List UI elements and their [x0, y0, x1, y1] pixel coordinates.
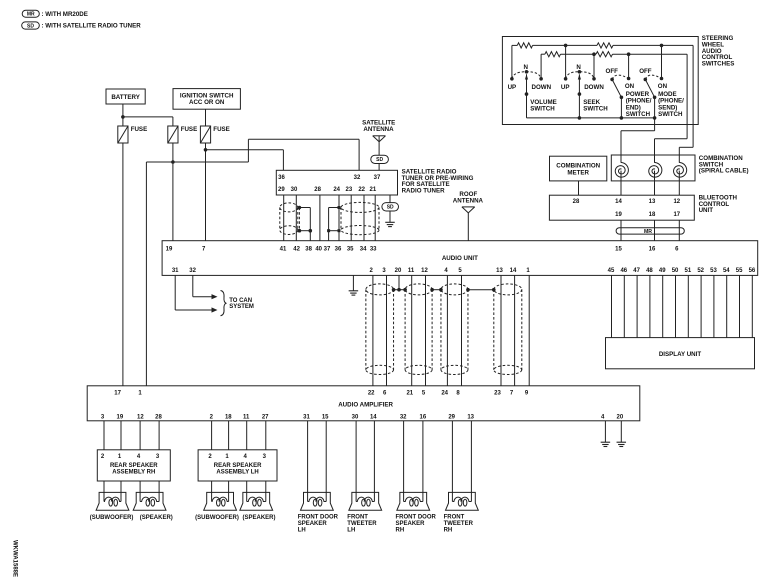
- svg-text:49: 49: [659, 268, 666, 274]
- svg-text:SPEAKER: SPEAKER: [396, 521, 426, 527]
- svg-text:47: 47: [633, 268, 640, 274]
- wire roof antenna to audio unit: [467, 213, 469, 241]
- svg-text:FUSE: FUSE: [131, 126, 148, 133]
- svg-text:1: 1: [118, 454, 122, 460]
- svg-text:(SPEAKER): (SPEAKER): [242, 515, 275, 521]
- resistor R2: [545, 52, 561, 57]
- legend SD symbol: [22, 22, 40, 29]
- satellite antenna symbol: [373, 135, 386, 137]
- svg-text:METER: METER: [567, 169, 589, 176]
- connector SD oval antenna: [371, 155, 389, 163]
- svg-text:N: N: [576, 64, 581, 71]
- wire amp pin 20 to ground: [620, 421, 622, 442]
- svg-text:REAR SPEAKER: REAR SPEAKER: [214, 463, 262, 469]
- audio amplifier box: [87, 386, 640, 421]
- svg-text:50: 50: [672, 268, 679, 274]
- shield cylinder 2: [405, 284, 432, 295]
- svg-text:7: 7: [510, 391, 514, 397]
- svg-text:38: 38: [305, 246, 312, 252]
- svg-text:4: 4: [137, 454, 141, 460]
- svg-text:14: 14: [370, 414, 377, 420]
- svg-text:UP: UP: [508, 84, 517, 91]
- svg-text:19: 19: [615, 212, 622, 218]
- front door speaker RH: [397, 492, 430, 510]
- svg-text:32: 32: [354, 175, 361, 181]
- svg-text:14: 14: [510, 268, 517, 274]
- svg-text:4: 4: [601, 414, 605, 420]
- svg-text:DOWN: DOWN: [532, 84, 552, 91]
- svg-text:30: 30: [352, 414, 359, 420]
- wire ACC branch riser: [247, 139, 249, 162]
- svg-text:FRONT DOOR: FRONT DOOR: [396, 514, 437, 520]
- svg-text:4: 4: [444, 268, 448, 274]
- svg-text:WKWA1588E: WKWA1588E: [12, 540, 18, 577]
- battery box: [106, 89, 145, 104]
- fuse F1: [118, 126, 128, 143]
- svg-text:34: 34: [360, 246, 367, 252]
- svg-text:20: 20: [395, 268, 402, 274]
- audio unit box: [162, 241, 758, 276]
- wire line2 to volume DOWN: [540, 54, 542, 79]
- svg-text:48: 48: [646, 268, 653, 274]
- wire battery to fuse F1: [122, 104, 124, 126]
- svg-text:1: 1: [526, 268, 530, 274]
- svg-text:40: 40: [315, 246, 322, 252]
- svg-text:54: 54: [723, 268, 730, 274]
- power phone end switch: [610, 78, 614, 82]
- wire fuse F1 to amplifier pin 17: [122, 143, 124, 386]
- svg-text:17: 17: [673, 212, 680, 218]
- wires rear RH subwoofer: [103, 481, 105, 502]
- wire amp pin 19 to rear RH pin 1: [120, 421, 122, 450]
- volume switch: [510, 77, 514, 81]
- svg-text:13: 13: [649, 199, 656, 205]
- svg-text:19: 19: [117, 414, 124, 420]
- wire audio unit case ground: [352, 275, 354, 290]
- ground audio unit: [349, 290, 359, 292]
- svg-text:22: 22: [368, 391, 375, 397]
- resistor R1: [517, 43, 532, 48]
- svg-text:13: 13: [467, 414, 474, 420]
- wire fuse F2 to audio unit pin 19: [172, 143, 174, 241]
- wire bluetooth pin 18 to audio unit pin 16: [654, 220, 656, 241]
- svg-text:: WITH MR20DE: : WITH MR20DE: [42, 11, 88, 18]
- ground amp pin 4: [601, 441, 611, 443]
- svg-text:TWEETER: TWEETER: [347, 521, 377, 527]
- svg-text:SPEAKER: SPEAKER: [298, 521, 328, 527]
- svg-text:3: 3: [382, 268, 386, 274]
- wire line2 to seek DOWN: [593, 54, 595, 79]
- svg-text:: WITH SATELLITE RADIO TUNER: : WITH SATELLITE RADIO TUNER: [42, 23, 142, 30]
- svg-text:17: 17: [114, 391, 121, 397]
- wire line1 to seek UP: [565, 45, 567, 78]
- junction battery feed: [121, 115, 125, 119]
- spiral cable coil 2: [649, 162, 662, 177]
- wire switch common rail: [527, 117, 655, 119]
- wire ACC branch to satellite tuner pin 32: [248, 138, 359, 140]
- svg-text:FUSE: FUSE: [181, 126, 198, 133]
- svg-text:5: 5: [422, 391, 426, 397]
- svg-text:1: 1: [225, 454, 229, 460]
- svg-text:12: 12: [673, 199, 680, 205]
- svg-text:22: 22: [358, 187, 365, 193]
- svg-text:OFF: OFF: [606, 68, 619, 75]
- svg-text:28: 28: [314, 187, 321, 193]
- rear speaker RH speaker: [133, 492, 166, 510]
- wire audio pin 1 to amp pin 9: [528, 275, 530, 385]
- shield B drain to audio pin 37: [329, 207, 339, 209]
- rear speaker LH speaker: [240, 492, 273, 510]
- svg-text:14: 14: [615, 199, 622, 205]
- wire line1 output to spiral cable 3: [692, 45, 694, 147]
- svg-text:TWEETER: TWEETER: [444, 521, 474, 527]
- svg-text:2: 2: [370, 268, 374, 274]
- rear subwoofer RH speaker: [96, 492, 129, 510]
- svg-text:52: 52: [697, 268, 704, 274]
- wire amp pin 27 to rear LH pin 3: [265, 421, 267, 450]
- svg-text:TO CAN: TO CAN: [229, 298, 252, 304]
- svg-text:46: 46: [620, 268, 627, 274]
- svg-text:ASSEMBLY LH: ASSEMBLY LH: [216, 469, 258, 475]
- svg-text:SD: SD: [387, 205, 394, 211]
- wires rear RH speaker: [139, 481, 141, 502]
- steering wheel audio control switches box: [502, 37, 698, 125]
- svg-text:5: 5: [458, 268, 462, 274]
- svg-text:SD: SD: [27, 23, 34, 29]
- svg-text:OFF: OFF: [639, 68, 652, 75]
- svg-text:6: 6: [383, 391, 387, 397]
- wires front door speaker LH: [307, 421, 309, 502]
- svg-text:4: 4: [244, 454, 248, 460]
- satellite radio tuner box: [276, 170, 397, 195]
- wire bus line 1: [512, 44, 517, 46]
- svg-text:LH: LH: [298, 527, 306, 533]
- svg-text:37: 37: [374, 175, 381, 181]
- wire line2 to power switch ON: [628, 54, 630, 78]
- wire SD oval to ground: [389, 211, 391, 222]
- svg-text:(SUBWOOFER): (SUBWOOFER): [195, 515, 239, 521]
- wire amp pin 3 to rear RH pin 2: [103, 421, 105, 450]
- wire line1 to volume UP: [511, 45, 513, 78]
- svg-text:36: 36: [335, 246, 342, 252]
- svg-text:REAR SPEAKER: REAR SPEAKER: [110, 463, 158, 469]
- svg-text:53: 53: [710, 268, 717, 274]
- shield cylinder 1: [366, 284, 394, 295]
- wire amp pin 18 to rear LH pin 1: [228, 421, 230, 450]
- svg-text:SWITCHES: SWITCHES: [702, 60, 735, 67]
- wire tuner pin 22 to audio pin 34: [363, 195, 365, 241]
- ground satellite SD: [385, 221, 395, 223]
- wire audio pin 2 to amp pin 22: [372, 275, 374, 385]
- svg-text:MR: MR: [27, 12, 35, 18]
- shield cylinder 4: [494, 284, 522, 295]
- svg-text:SWITCH: SWITCH: [658, 111, 683, 118]
- shield cylinder 3: [441, 284, 468, 295]
- wire fuse F3 branch to satellite tuner pin 36: [206, 149, 284, 151]
- junction fuse F3 branch: [204, 148, 208, 152]
- svg-text:FRONT: FRONT: [347, 514, 368, 520]
- shield A drain to audio pin 38: [298, 208, 300, 231]
- svg-text:55: 55: [736, 268, 743, 274]
- svg-text:45: 45: [608, 268, 615, 274]
- svg-text:FRONT: FRONT: [444, 514, 465, 520]
- wire ignition to fuse F3: [205, 109, 207, 126]
- spiral cable coil 3: [674, 162, 687, 177]
- wire audio pin 13 to amp pin 23: [500, 275, 502, 385]
- ignition switch box: [173, 89, 240, 110]
- svg-text:N: N: [523, 64, 528, 71]
- wire SD to satellite tuner pin 37: [378, 164, 380, 171]
- wire bus line 2: [541, 53, 545, 55]
- wire amp pin 11 to rear LH pin 4: [246, 421, 248, 450]
- front door speaker LH: [301, 492, 334, 510]
- wire audio pin 31 to CAN: [174, 275, 176, 310]
- svg-text:21: 21: [370, 187, 377, 193]
- shield cylinder A: [280, 203, 298, 212]
- shield cylinder B: [341, 202, 379, 212]
- roof antenna symbol: [462, 206, 475, 208]
- svg-text:1: 1: [138, 391, 142, 397]
- svg-text:ANTENNA: ANTENNA: [363, 126, 394, 133]
- wire audio pin 4 to amp pin 24: [446, 275, 448, 385]
- svg-text:(SPEAKER): (SPEAKER): [140, 515, 173, 521]
- svg-text:27: 27: [262, 414, 269, 420]
- wire bluetooth pin 17 to audio unit pin 6: [678, 220, 680, 241]
- svg-text:21: 21: [406, 391, 413, 397]
- svg-text:42: 42: [293, 246, 300, 252]
- svg-text:28: 28: [155, 414, 162, 420]
- svg-text:24: 24: [333, 187, 340, 193]
- svg-text:6: 6: [675, 246, 679, 252]
- svg-text:11: 11: [408, 268, 415, 274]
- wire audio pin 3 to amp pin 6: [386, 275, 388, 385]
- wires front tweeter RH: [451, 421, 453, 502]
- svg-text:12: 12: [421, 268, 428, 274]
- svg-text:UNIT: UNIT: [699, 207, 714, 214]
- fuse F2: [168, 126, 178, 143]
- svg-text:16: 16: [420, 414, 427, 420]
- svg-text:2: 2: [210, 414, 214, 420]
- rear speaker assembly RH box: [97, 450, 170, 481]
- svg-text:41: 41: [280, 246, 287, 252]
- svg-text:MR: MR: [644, 229, 652, 235]
- svg-text:31: 31: [172, 268, 179, 274]
- connector SD oval ground: [382, 203, 399, 211]
- svg-text:35: 35: [347, 246, 354, 252]
- svg-text:ANTENNA: ANTENNA: [453, 198, 484, 205]
- wire amp pin 28 to rear RH pin 3: [158, 421, 160, 450]
- front tweeter LH: [349, 492, 382, 510]
- svg-text:11: 11: [243, 414, 250, 420]
- svg-text:9: 9: [525, 391, 529, 397]
- svg-text:18: 18: [225, 414, 232, 420]
- svg-text:ACC OR ON: ACC OR ON: [189, 99, 225, 106]
- svg-text:29: 29: [278, 187, 285, 193]
- shield jumper wires: [394, 289, 406, 291]
- wires audio unit pins 45-56 to display unit: [611, 275, 613, 337]
- svg-text:15: 15: [322, 414, 329, 420]
- svg-text:32: 32: [400, 414, 407, 420]
- wire ACC branch to amplifier pin 1: [146, 161, 248, 163]
- svg-text:SWITCH: SWITCH: [583, 105, 608, 112]
- svg-text:AUDIO UNIT: AUDIO UNIT: [442, 255, 478, 262]
- svg-text:13: 13: [496, 268, 503, 274]
- wires rear LH subwoofer: [211, 481, 213, 502]
- svg-text:(SPIRAL CABLE): (SPIRAL CABLE): [699, 168, 749, 175]
- wire satellite antenna: [378, 136, 380, 155]
- CAN brace: [221, 291, 227, 316]
- svg-text:FUSE: FUSE: [213, 126, 230, 133]
- svg-text:DISPLAY UNIT: DISPLAY UNIT: [659, 351, 702, 358]
- svg-text:SYSTEM: SYSTEM: [229, 304, 254, 310]
- svg-text:28: 28: [573, 199, 580, 205]
- svg-text:UP: UP: [561, 84, 570, 91]
- svg-text:BATTERY: BATTERY: [111, 94, 140, 101]
- wire amp pin 12 to rear RH pin 4: [139, 421, 141, 450]
- wire audio pin 11 to amp pin 21: [411, 275, 413, 385]
- wire tuner pin 28 to audio pin 40: [319, 195, 321, 241]
- svg-text:8: 8: [456, 391, 460, 397]
- svg-text:15: 15: [615, 246, 622, 252]
- svg-text:37: 37: [324, 246, 331, 252]
- resistor R4: [596, 52, 613, 57]
- svg-text:32: 32: [189, 268, 196, 274]
- svg-text:23: 23: [346, 187, 353, 193]
- connector MR oval: [616, 228, 684, 234]
- wire audio pin 12 to amp pin 5: [425, 275, 427, 385]
- svg-text:12: 12: [137, 414, 144, 420]
- svg-text:DOWN: DOWN: [584, 84, 604, 91]
- wires rear LH speaker: [246, 481, 248, 502]
- svg-text:31: 31: [303, 414, 310, 420]
- svg-text:33: 33: [370, 246, 377, 252]
- wire combination meter to bluetooth pin 28: [578, 181, 580, 195]
- svg-text:56: 56: [749, 268, 756, 274]
- wire tuner pin 24 to audio pin 36: [338, 195, 340, 241]
- svg-text:FRONT DOOR: FRONT DOOR: [298, 514, 339, 520]
- wire line1 to mode switch ON: [661, 45, 663, 78]
- bluetooth control unit box: [549, 195, 694, 220]
- svg-text:19: 19: [166, 246, 173, 252]
- wires front door speaker RH: [403, 421, 405, 502]
- seek switch: [564, 77, 568, 81]
- fuse F3: [200, 126, 210, 143]
- svg-text:AUDIO AMPLIFIER: AUDIO AMPLIFIER: [338, 402, 393, 409]
- wire tuner pin 21 to audio pin 33: [374, 195, 376, 241]
- wire audio pin 5 to amp pin 8: [461, 275, 463, 385]
- svg-text:LH: LH: [347, 527, 355, 533]
- svg-text:(SUBWOOFER): (SUBWOOFER): [90, 515, 134, 521]
- rear speaker assembly LH box: [198, 450, 277, 481]
- wires front tweeter LH: [355, 421, 357, 502]
- svg-text:RH: RH: [444, 527, 453, 533]
- svg-text:3: 3: [156, 454, 160, 460]
- svg-text:20: 20: [617, 414, 624, 420]
- wire spiral 1 to bluetooth pin 14: [620, 171, 622, 196]
- spiral cable coil 1: [615, 162, 628, 177]
- svg-text:SWITCH: SWITCH: [530, 105, 555, 112]
- wire tuner pin 30 to audio pin 42: [295, 195, 297, 241]
- svg-text:16: 16: [649, 246, 656, 252]
- ground amp pin 20: [617, 441, 627, 443]
- svg-text:ON: ON: [658, 83, 668, 90]
- svg-text:30: 30: [291, 187, 298, 193]
- mode phone send switch: [644, 78, 648, 82]
- wire amp pin 2 to rear LH pin 2: [211, 421, 213, 450]
- svg-text:ON: ON: [625, 83, 635, 90]
- svg-text:2: 2: [208, 454, 212, 460]
- svg-text:RADIO TUNER: RADIO TUNER: [402, 188, 445, 195]
- svg-text:36: 36: [278, 175, 285, 181]
- wire line2 output to spiral cable 2: [686, 54, 688, 139]
- wire battery feed to fuse F2: [123, 116, 173, 118]
- junction fuse F2 branch: [171, 160, 175, 164]
- wire audio pin 32 to CAN: [192, 275, 194, 296]
- display unit box: [606, 338, 755, 369]
- svg-text:3: 3: [263, 454, 267, 460]
- wire tuner pin 23 to audio pin 35: [350, 195, 352, 241]
- svg-text:ASSEMBLY RH: ASSEMBLY RH: [112, 469, 155, 475]
- combination meter box: [550, 156, 607, 181]
- svg-text:3: 3: [101, 414, 105, 420]
- svg-text:SWITCH: SWITCH: [626, 111, 651, 118]
- resistor R3: [597, 43, 613, 48]
- wire fuse F3 to audio unit pin 7: [205, 143, 207, 241]
- svg-text:RH: RH: [396, 527, 405, 533]
- svg-text:2: 2: [101, 454, 105, 460]
- front tweeter RH: [446, 492, 479, 510]
- wire audio pin 14 to amp pin 7: [514, 275, 516, 385]
- svg-text:7: 7: [202, 246, 206, 252]
- wire spiral 3 to bluetooth pin 12: [678, 171, 680, 196]
- svg-text:24: 24: [441, 391, 448, 397]
- legend MR symbol: [22, 10, 39, 17]
- svg-text:18: 18: [649, 212, 656, 218]
- svg-text:23: 23: [494, 391, 501, 397]
- wire tuner pin 29 to audio pin 41: [283, 195, 285, 241]
- wire spiral 2 to bluetooth pin 13: [654, 171, 656, 196]
- wire rail output to spiral cable 1: [654, 118, 656, 131]
- wire amp pin 4 to ground: [604, 421, 606, 442]
- svg-text:29: 29: [448, 414, 455, 420]
- svg-text:51: 51: [685, 268, 692, 274]
- wire bluetooth pin 19 to audio unit pin 15: [620, 220, 622, 241]
- rear subwoofer LH speaker: [204, 492, 237, 510]
- svg-text:SD: SD: [376, 157, 383, 163]
- wire audio pin 20 shield drain: [398, 275, 400, 289]
- combination switch spiral cable box: [611, 155, 695, 181]
- wire SD ground stub: [389, 195, 391, 203]
